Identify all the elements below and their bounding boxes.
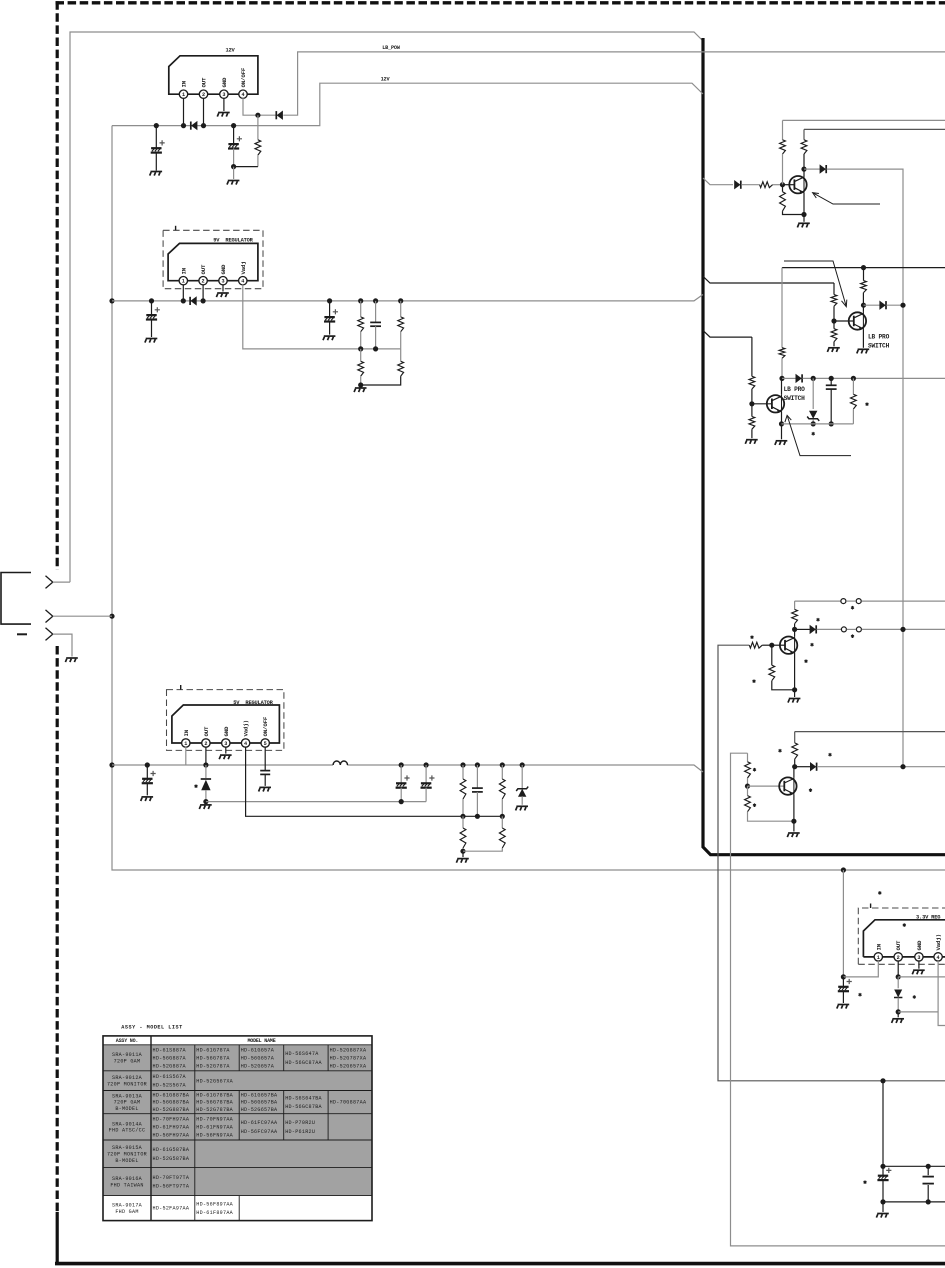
pin 2 of 5V regulator: [202, 739, 210, 747]
svg-text:2: 2: [897, 955, 900, 961]
resistor R25 Q5 collector pull-up: [794, 732, 796, 743]
resistor R12 Q1 collector load: [803, 129, 805, 139]
jumper J1: [841, 599, 861, 604]
svg-text:HD-52G887XA: HD-52G887XA: [330, 1047, 367, 1053]
svg-text:IN: IN: [183, 729, 190, 736]
wire lower rail from D4 to output caps: [206, 801, 426, 803]
wire 9V main line: [112, 295, 703, 301]
wire Q4 emitter: [794, 653, 796, 690]
svg-text:HD-61S567A: HD-61S567A: [153, 1074, 187, 1080]
ground below C7: [259, 787, 271, 791]
svg-text:FHD GAM: FHD GAM: [115, 1209, 138, 1215]
connector pin 3 chevron: [46, 628, 53, 641]
ground below D4: [205, 802, 207, 804]
wire connector pin2 to input rail: [53, 615, 112, 617]
zener diode ZD2: [812, 378, 814, 409]
wire jumper J1 to right edge: [862, 600, 945, 602]
wire D5 to base resistor: [741, 184, 759, 186]
pin 1 of 12V regulator: [179, 90, 187, 98]
junction Q1 collector node: [801, 167, 806, 172]
svg-text:HD-56FC97AA: HD-56FC97AA: [241, 1129, 278, 1135]
ground below D11: [897, 1012, 899, 1017]
junction R4 bottom: [358, 382, 363, 387]
junction input rail / 9V line: [109, 298, 114, 303]
svg-text:HD-61FC97AA: HD-61FC97AA: [241, 1120, 278, 1126]
svg-text:HD-52S567A: HD-52S567A: [153, 1083, 187, 1089]
wire Q2 emitter down to ground: [862, 329, 864, 348]
junction Q1 base node: [780, 182, 785, 187]
svg-text:3: 3: [221, 279, 224, 285]
ground Q4 emitter: [794, 690, 796, 697]
wire R1 bottom to C2 bottom: [234, 166, 258, 168]
svg-text:1: 1: [877, 955, 880, 961]
svg-text:HD-61FH97AA: HD-61FH97AA: [153, 1124, 190, 1130]
svg-text:1: 1: [182, 279, 185, 285]
resistor R8 5V divider lower: [462, 816, 464, 828]
capacitor C6 electrolytic input 5V: [145, 762, 150, 767]
pin 3 of 3.3V regulator: [915, 953, 923, 961]
resistor R4 9V divider lower: [360, 349, 362, 361]
wire bottom cap rail to edge: [883, 1201, 945, 1203]
svg-text:IN: IN: [875, 943, 882, 950]
svg-text:GND: GND: [223, 726, 230, 737]
svg-text:12V: 12V: [225, 48, 235, 54]
svg-text:HD-61G657BA: HD-61G657BA: [241, 1093, 278, 1099]
wire cap branch down: [882, 1081, 884, 1167]
junction Q4 collector node: [792, 627, 797, 632]
diode D5 pointing right (Q1 base feed): [734, 180, 741, 189]
diode D2 pointing left on ON/OFF wire: [276, 111, 283, 120]
IC 12V regulator body: [169, 56, 258, 94]
wire D10 to right edge: [817, 766, 945, 768]
label * below J2: [851, 634, 854, 638]
designator tick above 5V regulator box: [180, 685, 182, 690]
junction D10 net / vertical x=903 bottom end: [900, 764, 905, 769]
svg-text:4: 4: [241, 92, 244, 98]
ground below C4: [323, 336, 335, 340]
junction R7 bottom: [500, 814, 505, 819]
wire 3.3V out to right edge: [898, 976, 945, 978]
svg-text:4: 4: [241, 279, 244, 285]
resistor R7 5V divider upper right: [500, 762, 505, 767]
page border (dash-dot) top: [56, 1, 945, 4]
junction Q3 base node: [749, 401, 754, 406]
ground pin3 9V regulator: [216, 293, 228, 297]
junction pin2 (9V): [201, 298, 206, 303]
svg-text:B-MODEL: B-MODEL: [115, 1158, 138, 1164]
junction input rail feed for 3.3V: [841, 867, 846, 872]
svg-text:HD-52G787BA: HD-52G787BA: [196, 1107, 233, 1113]
svg-text:720P MONITOR: 720P MONITOR: [107, 1081, 147, 1087]
resistor R10 in series with Q1 base: [760, 182, 773, 188]
designator tick above 3.3V regulator box: [870, 904, 872, 909]
svg-text:HD-56G787A: HD-56G787A: [196, 1055, 230, 1061]
table column separators per row: [195, 1045, 328, 1221]
ground below R8: [462, 851, 464, 857]
svg-text:12V: 12V: [381, 77, 391, 83]
junction C5 bottom: [373, 346, 378, 351]
junction C8 bottom: [399, 799, 404, 804]
svg-text:HD-52G787XA: HD-52G787XA: [330, 1055, 367, 1061]
diode D9 from Q4 collector: [795, 628, 810, 630]
svg-text:HD-56FT97TA: HD-56FT97TA: [153, 1184, 190, 1190]
thick power bus (module boundary), right side: [703, 38, 945, 855]
svg-text:4: 4: [244, 741, 247, 747]
wire pin5 down: [264, 747, 266, 771]
callout arrow pointing at Q1: [814, 193, 881, 204]
wire pin4 Vadj down and right (5V feedback): [246, 747, 503, 817]
capacitor C1 electrolytic on 12V line left: [154, 123, 159, 128]
resistor R13 Q1 base-emitter: [782, 185, 784, 192]
ground for connector pin3: [65, 658, 77, 662]
junction 3.3V input node: [841, 974, 846, 979]
junction Q5 base node: [745, 784, 750, 789]
ground Q3 emitter: [781, 424, 783, 439]
svg-text:HD-56G887BA: HD-56G887BA: [153, 1100, 190, 1106]
pin 4 of 12V regulator: [239, 90, 247, 98]
svg-text:SRA-9011A: SRA-9011A: [112, 1052, 143, 1058]
junction input rail / 5V line: [109, 762, 114, 767]
junction pin1/12V line: [181, 123, 186, 128]
junction Q2 collector node: [861, 303, 866, 308]
svg-text:HD-52G587BA: HD-52G587BA: [153, 1156, 190, 1162]
svg-text:OUT: OUT: [895, 940, 902, 951]
table shaded rows background: [103, 1045, 372, 1196]
IC 5V regulator body: [172, 705, 280, 743]
svg-text:OUT: OUT: [200, 264, 207, 275]
diode D7 from Q2 collector pointing right: [864, 304, 880, 306]
svg-text:SRA-9016A: SRA-9016A: [112, 1176, 143, 1182]
diode D3 pointing left on 9V line: [190, 296, 197, 305]
diode D6 from Q1 collector pointing right: [804, 168, 820, 170]
resistor R21 Q4 base series: [749, 642, 762, 648]
svg-text:SWITCH: SWITCH: [868, 343, 890, 350]
wire supply net y=731.6 to right edge: [795, 731, 945, 733]
svg-text:HD-56FN97AA: HD-56FN97AA: [196, 1133, 233, 1139]
svg-text:HD-56G657BA: HD-56G657BA: [241, 1100, 278, 1106]
svg-text:HD-P70R2U: HD-P70R2U: [285, 1120, 315, 1126]
ground below R4: [360, 385, 362, 387]
resistor R22 Q4 collector pull-up: [794, 601, 796, 609]
junction input rail / connector pin 2 wire: [109, 614, 114, 619]
junction ZD2 bottom on rail: [811, 421, 816, 426]
wire connector pin3 to ground: [53, 634, 72, 656]
wire supply net with jumper links (upper): [795, 600, 841, 602]
table column line after ASSY NO.: [150, 1036, 152, 1221]
wire Q4 base: [772, 644, 785, 646]
connector bracket outline: [1, 573, 31, 625]
junction zener branch: [811, 376, 816, 381]
callout arrow pointing at Q3: [788, 417, 852, 456]
junction y=1081 line / cap branch: [880, 1078, 885, 1083]
junction Q2 base node: [831, 318, 836, 323]
svg-text:HD-56G657A: HD-56G657A: [241, 1055, 275, 1061]
connector pin 2 chevron: [46, 610, 53, 623]
minus label: [17, 633, 27, 635]
junction C14 top: [926, 1164, 931, 1169]
resistor R2 9V divider upper: [358, 298, 363, 303]
label * near D4: [195, 784, 198, 788]
svg-text:HD-52G567XA: HD-52G567XA: [196, 1078, 233, 1084]
page border (dash-dot) left upper segment: [56, 1, 59, 570]
wire D8 line to right edge: [803, 377, 945, 379]
wire pin1 to 12V line: [183, 98, 185, 126]
junction Q5 emitter/ground: [791, 819, 796, 824]
svg-text:HD-61G587BA: HD-61G587BA: [153, 1147, 190, 1153]
diode D10 from Q5 collector: [795, 766, 811, 768]
IC 5V regulator dashed outline: [167, 690, 284, 751]
ground below C3: [145, 339, 157, 343]
svg-text:1: 1: [184, 741, 187, 747]
junction Q3 collector node: [779, 376, 784, 381]
diode D1 on 12V line pointing left: [191, 121, 198, 130]
wire base bar: [783, 184, 795, 186]
svg-text:HD-52G657XA: HD-52G657XA: [330, 1063, 367, 1069]
capacitor C10 across R6: [475, 762, 480, 767]
pin 4 of 9V regulator: [239, 277, 247, 285]
svg-text:IN: IN: [181, 80, 188, 87]
page border (dash-dot) left lower segment: [56, 646, 59, 1212]
junction C11 bottom on rail: [829, 421, 834, 426]
svg-text:HD-61G787A: HD-61G787A: [196, 1047, 230, 1053]
wire Q5 collector: [793, 767, 795, 778]
wire D7 to vertical net: [886, 304, 903, 306]
capacitor C12 electrolytic 3.3V input: [842, 977, 844, 987]
ground pin3 3.3V regulator: [912, 970, 924, 974]
svg-text:HD-56G787BA: HD-56G787BA: [196, 1100, 233, 1106]
callout arrow pointing at Q2 area: [784, 261, 846, 306]
wire pin3 to ground (9V): [222, 284, 224, 291]
wire pin1 down (5V): [185, 747, 187, 765]
pin 2 of 9V regulator: [199, 277, 207, 285]
IC 9V regulator body: [168, 243, 258, 280]
wire R21 to base: [762, 644, 772, 646]
wire 12V main line: [112, 83, 703, 125]
svg-text:SRA-9014A: SRA-9014A: [112, 1121, 143, 1127]
wire pin2 down (3.3V out): [897, 961, 899, 977]
page border solid left bottom piece: [56, 1212, 59, 1265]
resistor R17 Q3 base series: [751, 337, 753, 376]
label * left of R25: [779, 749, 782, 753]
svg-text:720P GAM: 720P GAM: [114, 1059, 141, 1065]
capacitor C4 electrolytic on 9V line: [327, 298, 332, 303]
junction Q4 emitter/ground: [792, 687, 797, 692]
junction D4 bottom: [203, 799, 208, 804]
wire Q1 emitter to ground rail: [803, 193, 805, 215]
resistor R18 Q3 base pulldown: [751, 404, 753, 417]
svg-text:MODEL NAME: MODEL NAME: [247, 1038, 275, 1044]
svg-text:SRA-9013A: SRA-9013A: [112, 1093, 143, 1099]
diode D4 pointing up on OUT: [201, 779, 211, 790]
wire from supply net down to Q3 collector: [781, 268, 783, 348]
wire pin3 to ground (3.3V): [918, 961, 920, 969]
junction R8 bottom: [460, 849, 465, 854]
wire D11 bottom to Vadj vertical: [898, 1011, 938, 1013]
capacitor C13 electrolytic bottom right: [882, 1166, 884, 1175]
capacitor C3 electrolytic on 9V line left: [149, 298, 154, 303]
wire pin4 Vadj down then right: [938, 961, 945, 1026]
capacitor C14 bottom right: [927, 1166, 929, 1175]
svg-text:HD-P61R2U: HD-P61R2U: [285, 1129, 315, 1135]
resistor R1 from ON/OFF node: [257, 115, 259, 140]
pin 4 of 3.3V regulator: [934, 953, 942, 961]
ground pin3 12V regulator: [217, 113, 229, 117]
wire net B from Q5 base divider (x=730): [731, 753, 945, 1246]
resistor R24 Q5 base upper: [747, 753, 749, 762]
ground below ZD1: [516, 806, 528, 810]
label * above 3.3V box: [878, 891, 881, 895]
junction Q5 collector node: [792, 764, 797, 769]
wire rail to 3.3V input cap node: [842, 870, 844, 977]
label * inside 3.3V box: [903, 923, 906, 927]
label * left of C13: [864, 1180, 867, 1184]
junction R2 bottom: [358, 346, 363, 351]
svg-text:HD-70FH97AA: HD-70FH97AA: [153, 1116, 190, 1122]
svg-text:HD-52G657A: HD-52G657A: [241, 1063, 275, 1069]
ground pin3 5V regulator: [219, 755, 231, 759]
zener diode ZD1 on 5V rail: [520, 762, 525, 767]
wire input rail x=112 from 12V line down to y=870 then right to edge: [112, 126, 945, 870]
transistor Q5 (NPN): [779, 777, 796, 795]
svg-text:LB PRO: LB PRO: [784, 386, 806, 393]
connector pin 1 chevron: [46, 576, 53, 589]
svg-text:HD-56S647A: HD-56S647A: [285, 1051, 319, 1057]
junction Q4 base node: [769, 643, 774, 648]
wire pin1 down (9V): [182, 284, 184, 301]
wire LB_POW loop: left vertical x=70 up from connector pin 1 to top edge, across to bus: [70, 32, 703, 582]
wire top cap rail to edge: [883, 1165, 945, 1167]
wire R10 to base node: [773, 184, 783, 186]
junction Q3 emitter / lower rail: [779, 421, 784, 426]
wire pin4 Vadj down and right (9V feedback): [243, 284, 401, 349]
svg-text:FHD ATSC/CC: FHD ATSC/CC: [109, 1128, 146, 1134]
svg-text:HD-56G887A: HD-56G887A: [153, 1055, 187, 1061]
diode D8 from Q3 collector pointing right: [782, 377, 796, 379]
resistor R16 Q2 collector pull-up: [861, 281, 867, 293]
junction R16 top on supply net: [861, 265, 866, 270]
wire pin3 to ground: [223, 98, 225, 111]
bus tap to Q1 base network: [703, 178, 733, 185]
svg-text:ASSY NO.: ASSY NO.: [116, 1038, 138, 1044]
wire Q3 emitter down: [781, 412, 783, 424]
IC 9V regulator dashed outline: [163, 230, 263, 288]
wire lower rail of Q3 stage: [782, 423, 854, 425]
svg-text:SRA-9012A: SRA-9012A: [112, 1075, 143, 1081]
svg-text:HD-61G657A: HD-61G657A: [241, 1047, 275, 1053]
svg-text:2: 2: [204, 741, 207, 747]
pin 3 of 12V regulator: [220, 90, 228, 98]
junction Q1 emitter/ground: [801, 212, 806, 217]
svg-text:HD-S6S647BA: HD-S6S647BA: [285, 1095, 322, 1101]
svg-text:ON/OFF: ON/OFF: [262, 716, 269, 736]
svg-text:ASSY - MODEL LIST: ASSY - MODEL LIST: [121, 1024, 182, 1030]
IC 3.3V regulator body: [863, 920, 945, 957]
svg-text:HD-52G887BA: HD-52G887BA: [153, 1107, 190, 1113]
junction D11 bottom: [896, 1009, 901, 1014]
wire Q5 emitter: [793, 794, 795, 821]
table outer border: [103, 1036, 372, 1221]
wire diode to LB_POW riser: [283, 52, 945, 115]
wire net A from Q4 base down-left (x=718): [718, 645, 945, 1081]
pin 2 of 12V regulator: [199, 90, 207, 98]
resistor R3 9V divider upper right: [398, 298, 403, 303]
resistor R9 5V divider lower right: [501, 816, 503, 828]
wire connector pin1 to LB_POW loop: [53, 581, 70, 583]
wire jumper J2 to right edge: [862, 628, 945, 630]
wire base pull-up from line above: [782, 120, 784, 139]
ground Q5 emitter: [793, 821, 795, 831]
label * below right of Q4: [805, 659, 808, 663]
svg-text:HD-56FH97AA: HD-56FH97AA: [153, 1133, 190, 1139]
pin 1 of 3.3V regulator: [874, 953, 882, 961]
pin 1 of 5V regulator: [182, 739, 190, 747]
wire Q2 collector up: [862, 293, 864, 312]
wire Q1 collector: [803, 169, 805, 176]
pin 1 of 9V regulator: [179, 277, 187, 285]
svg-text:Vadj): Vadj): [935, 934, 942, 950]
pin 3 of 5V regulator: [222, 739, 230, 747]
wire input node to pin1: [843, 961, 878, 977]
pin 2 of 3.3V regulator: [894, 953, 902, 961]
wire D6 to vertical net x=903: [827, 169, 903, 767]
inductor L1 on 5V line: [333, 761, 347, 765]
transistor Q2 (PNP, LB PRO SWITCH): [849, 312, 866, 330]
ground below R15: [827, 348, 839, 352]
ground below R18: [745, 440, 757, 444]
label * left of R26: [753, 803, 756, 807]
svg-text:FHD TAIWAN: FHD TAIWAN: [110, 1182, 143, 1188]
label * left of R24: [753, 768, 756, 772]
table horizontal lines: [103, 1045, 372, 1196]
svg-text:SRA-9015A: SRA-9015A: [112, 1145, 143, 1151]
capacitor C5 on 9V divider: [373, 298, 378, 303]
svg-text:HD-52G887A: HD-52G887A: [153, 1063, 187, 1069]
svg-text:3: 3: [222, 92, 225, 98]
svg-text:HD-61G787BA: HD-61G787BA: [196, 1093, 233, 1099]
svg-text:GND: GND: [220, 264, 227, 275]
bus tap to Q2 base network: [703, 276, 834, 283]
label * below ZD2: [812, 432, 815, 436]
junction R6 bottom on Vadj line: [460, 814, 465, 819]
transistor Q1 (NPN): [789, 176, 806, 194]
label * right of Q4: [811, 643, 814, 647]
capacitor C7 on ON/OFF pin: [260, 771, 270, 775]
junction C2 bottom: [231, 164, 236, 169]
svg-text:SWITCH: SWITCH: [784, 395, 806, 402]
svg-text:LB PRO: LB PRO: [868, 333, 890, 340]
svg-text:HD-70FN97AA: HD-70FN97AA: [196, 1116, 233, 1122]
svg-text:5: 5: [264, 741, 267, 747]
ground below C1: [150, 172, 162, 176]
svg-text:3: 3: [917, 955, 920, 961]
resistor R15 Q2 base pulldown: [833, 321, 835, 329]
resistor R5 9V divider lower right: [400, 349, 402, 361]
junction J2 net / vertical x=903: [900, 627, 905, 632]
label * above D10 right: [829, 753, 832, 757]
ground below C2: [227, 181, 239, 185]
designator tick above 9V regulator box: [175, 226, 177, 231]
svg-text:HD-56F897AA: HD-56F897AA: [196, 1201, 233, 1207]
wire Q3 base: [752, 403, 772, 405]
svg-text:HD-56GC87BA: HD-56GC87BA: [285, 1104, 322, 1110]
resistor R20 (Q3 output): [851, 376, 856, 381]
wire pin2 down: [203, 98, 205, 126]
junction pin4 wire / resistor branch: [255, 113, 260, 118]
label * left of R23: [753, 679, 756, 683]
svg-text:GND: GND: [916, 940, 923, 951]
pin 3 of 9V regulator: [219, 277, 227, 285]
wire Q4 collector: [794, 629, 796, 636]
